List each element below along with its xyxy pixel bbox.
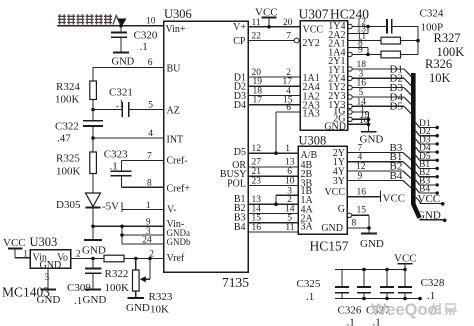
svg-text:U308: U308 [299, 134, 327, 148]
wire GNDa pin 3 [122, 234, 164, 236]
IC U306 7135 A/D converter [164, 7, 250, 290]
svg-text:AZ: AZ [167, 106, 180, 117]
svg-text:10: 10 [285, 176, 295, 186]
svg-text:C322: C322 [55, 121, 79, 133]
svg-text:20: 20 [283, 18, 293, 28]
wire 1Y2 pin 16 net D3 [348, 79, 412, 96]
node junction Vin-/D305 ground line [91, 225, 95, 229]
inverter bubble 2Y2 [294, 38, 299, 43]
wire VCC pin 16 of U308 [347, 188, 405, 205]
resistor R327 [381, 31, 464, 59]
node junction Vo/C309 [91, 257, 95, 261]
svg-text:5: 5 [148, 100, 153, 110]
wire 1G pin 1 [348, 104, 369, 115]
svg-text:.1: .1 [74, 295, 82, 307]
capacitor C328 [398, 270, 445, 303]
svg-text:23: 23 [252, 176, 262, 186]
svg-text:GND: GND [126, 302, 150, 314]
node junction R322/R323 top [134, 257, 138, 261]
svg-text:C325: C325 [297, 278, 321, 290]
svg-text:1: 1 [23, 249, 28, 259]
wire 2Y pin 7 net B3 [347, 142, 412, 160]
wire branch to 1B pin 3 [276, 186, 298, 204]
node junction wiper tap [148, 257, 152, 261]
svg-text:9: 9 [358, 46, 363, 56]
wire INT pin 4 [93, 137, 164, 139]
capacitor C320 [111, 26, 158, 53]
svg-text:100K: 100K [55, 94, 80, 106]
wire 2G pin 19 [348, 110, 370, 121]
svg-text:100K: 100K [56, 166, 81, 178]
svg-text:11: 11 [285, 223, 294, 233]
ground under U303 [37, 290, 61, 307]
svg-text:R322: R322 [105, 268, 129, 280]
svg-text:6: 6 [148, 58, 153, 68]
svg-text:.47: .47 [57, 133, 71, 145]
capacitor C323 [104, 149, 164, 188]
svg-text:C320: C320 [134, 30, 158, 42]
svg-text:Vin+: Vin+ [166, 24, 186, 35]
node junction R324/C322/AZ [91, 108, 95, 112]
svg-text:VCC: VCC [324, 187, 345, 198]
wire D2 pin 19 to 2A4 pin 17 [248, 85, 300, 87]
node junction G/GND [367, 226, 371, 230]
wire 2A1 pin 11 to R327 [348, 32, 381, 42]
svg-text:U307: U307 [299, 6, 329, 21]
node junction B1/1B [274, 202, 278, 206]
wire D4 pin 17 to 2A3 pin 15 [248, 104, 300, 106]
connector net GND [417, 209, 447, 222]
wire POL pin 23 to 3B pin 10 [248, 185, 298, 187]
node junction VCC tap [267, 25, 271, 29]
svg-text:CP: CP [233, 36, 246, 47]
svg-text:Cref-: Cref- [167, 156, 188, 167]
node junctions bottom rail [362, 297, 366, 301]
connector net B1 [416, 160, 439, 170]
wire U303 pin 3 to ground [47, 268, 49, 290]
svg-text:B4: B4 [390, 170, 403, 182]
node junction 2G [367, 118, 371, 122]
node junction GND pin [367, 123, 371, 127]
diode D305 [56, 193, 101, 240]
arrow into node [118, 19, 127, 27]
svg-text:V+: V+ [233, 22, 246, 33]
svg-text:11: 11 [252, 18, 261, 28]
svg-text:GND: GND [360, 134, 384, 146]
resistor R325 [56, 138, 96, 193]
svg-text:GND: GND [321, 223, 343, 234]
wire 1A4 pin 8 [348, 39, 368, 55]
wire 2Y1 pin 9 to R326 [348, 46, 381, 57]
ground under R323 [126, 298, 150, 314]
svg-text:BU: BU [167, 64, 182, 75]
node junction D5/1A3 [274, 151, 278, 155]
svg-text:GNDb: GNDb [167, 237, 191, 247]
power VCC bottom rail [394, 253, 417, 270]
ground under C320 [112, 53, 135, 68]
svg-text:-5V: -5V [102, 201, 119, 213]
node junction C322/INT/R325 [91, 136, 95, 140]
wire D1 pin 20 to 1A1 pin 2 [248, 76, 300, 78]
svg-text:GND: GND [360, 238, 384, 250]
svg-text:C328: C328 [421, 277, 445, 289]
node junctions top rail [362, 268, 366, 272]
wire B3 pin 15 to 2A pin 5 [248, 222, 298, 224]
svg-text:R327: R327 [434, 31, 461, 45]
svg-text:9: 9 [358, 171, 363, 181]
power VCC for U303 [3, 237, 30, 258]
potentiometer R323 [133, 259, 173, 316]
wire 1Y4 pin 12 to C324 [348, 18, 387, 29]
svg-text:8: 8 [352, 218, 357, 228]
svg-text:R324: R324 [56, 81, 80, 93]
power VCC at U306 V+ [255, 7, 278, 27]
svg-text:.1: .1 [306, 291, 314, 303]
watermark WeeQoo [371, 301, 457, 319]
svg-text:POL: POL [227, 179, 246, 190]
node sensor input label (Chinese pseudo-glyphs) [58, 14, 127, 26]
ground under U307 [360, 132, 384, 146]
wire GNDb pin 24 [122, 243, 164, 245]
wire joining GNDa GNDb to Vin- net [121, 226, 123, 244]
connector net D2 [416, 127, 439, 137]
svg-text:Cref+: Cref+ [167, 183, 191, 194]
capacitor C309 [67, 259, 102, 308]
svg-text:10K: 10K [429, 71, 451, 85]
wire GND pin 10 [348, 112, 369, 132]
svg-text:GND: GND [83, 294, 107, 306]
capacitor C327 [366, 270, 394, 326]
connector net D4 [416, 144, 439, 154]
wire 2Y4 pin 3 net D2 [348, 69, 412, 86]
svg-text:12: 12 [252, 144, 262, 154]
connector net D1 [416, 119, 439, 129]
connector net D5 [416, 152, 439, 162]
svg-text:VCC: VCC [418, 193, 441, 205]
svg-text:12: 12 [356, 162, 366, 172]
svg-text:Vref: Vref [167, 253, 185, 264]
svg-text:.1: .1 [347, 317, 355, 326]
capacitor C326 [338, 270, 372, 326]
connector net B4 [416, 185, 439, 195]
svg-text:3: 3 [287, 186, 292, 196]
svg-text:GND: GND [324, 121, 346, 132]
svg-text:1: 1 [146, 201, 151, 211]
wire sensor input to Vin+ [57, 25, 164, 27]
wire BUSY pin 21 to 2B pin 6 [248, 175, 298, 177]
wire G pin 15 [347, 206, 369, 234]
wire 1Y3 pin 14 net D5 [348, 97, 412, 114]
svg-text:16: 16 [357, 188, 367, 198]
wire 4Y pin 12 net B2 [347, 161, 412, 179]
connector net D3 [416, 135, 439, 145]
svg-text:4: 4 [148, 129, 153, 139]
wire Vin- pin 9 [93, 225, 164, 227]
wire B1 pin 13 to 1A pin 2 [248, 203, 298, 205]
svg-text:B4: B4 [234, 222, 246, 233]
svg-text:10: 10 [146, 17, 156, 27]
op-amp reference U303 MC1403 [2, 235, 71, 300]
svg-text:.1: .1 [110, 161, 118, 173]
svg-text:D5: D5 [234, 147, 246, 158]
svg-text:2: 2 [76, 249, 81, 259]
connector net B2 [416, 168, 439, 178]
svg-text:GND: GND [37, 294, 61, 306]
svg-text:17: 17 [253, 96, 263, 106]
svg-text:U306: U306 [164, 7, 192, 21]
svg-text:C324: C324 [420, 8, 444, 20]
wire B2 pin 14 to 4A pin 14 [248, 213, 298, 215]
svg-text:R323: R323 [149, 291, 173, 303]
ground under U308 [360, 234, 384, 251]
svg-text:1: 1 [285, 144, 290, 154]
svg-text:GND: GND [82, 245, 106, 257]
svg-text:7135: 7135 [222, 275, 249, 290]
IC U308 HC157 multiplexer [298, 134, 349, 254]
svg-text:U303: U303 [30, 235, 58, 249]
svg-text:R326: R326 [425, 57, 452, 71]
resistor R322 [104, 255, 129, 294]
wire CP pin 22 to U307 2Y2 pin 7 [248, 40, 294, 42]
svg-text:R325: R325 [56, 153, 80, 165]
svg-text:VCC: VCC [383, 193, 406, 205]
resistor R324 [55, 81, 96, 110]
wire 1Y pin 4 net B1 [347, 151, 412, 169]
wire U303 Vo pin 2 to Vref [71, 258, 164, 260]
ground under C309 [83, 290, 107, 307]
svg-text:VCC: VCC [303, 24, 324, 35]
wire D3 pin 18 to 1A2 pin 4 [248, 95, 300, 97]
svg-text:.1: .1 [116, 98, 124, 110]
svg-text:1A3: 1A3 [303, 109, 320, 120]
node junction 1Y4/2A2 [366, 25, 370, 29]
IC U307 HC240 octal inverting buffer [299, 6, 370, 132]
wire V+ pin 11 to U307 VCC pin 20 [248, 26, 300, 28]
ground under D305 [82, 240, 106, 257]
svg-text:8: 8 [147, 178, 152, 188]
node junction at 121,237 [120, 233, 124, 237]
net label -5V on V- pin 1 [102, 201, 164, 213]
wire 2A2 pin 13 [348, 25, 368, 35]
svg-text:GND: GND [40, 260, 62, 271]
data bus bar [411, 73, 422, 219]
svg-text:D4: D4 [234, 100, 246, 111]
svg-text:7: 7 [286, 31, 291, 41]
svg-text:15: 15 [357, 206, 367, 216]
svg-text:.1: .1 [140, 41, 148, 53]
wire decoupling bottom rail [335, 298, 420, 300]
capacitor C322 [55, 110, 103, 145]
svg-text:C309: C309 [67, 282, 91, 294]
svg-text:VCC: VCC [3, 237, 26, 249]
svg-text:3Y: 3Y [333, 176, 345, 187]
resistor R326 [381, 51, 452, 85]
wire decoupling top rail [335, 269, 405, 271]
wire 1A3 pin 6 from D5 net [276, 103, 300, 153]
svg-text:D305: D305 [56, 199, 81, 211]
svg-text:3A: 3A [301, 222, 314, 233]
wire D5 pin 12 to U308 A/B pin 1 [248, 152, 298, 154]
connector net B3 [416, 176, 439, 186]
svg-text:22: 22 [252, 31, 262, 41]
svg-text:C326: C326 [338, 305, 362, 317]
connector net VCC [416, 193, 445, 206]
svg-text:3: 3 [45, 273, 50, 283]
wire B4 pin 16 to 3A pin 11 [248, 231, 298, 233]
svg-text:C323: C323 [104, 149, 128, 161]
node junction R327/C324/R326 right [416, 39, 420, 43]
svg-text:C321: C321 [109, 87, 133, 99]
wire OR pin 27 to 4B pin 13 [248, 166, 298, 168]
capacitor C321 [93, 87, 164, 118]
svg-text:10K: 10K [150, 304, 169, 316]
svg-text:VCC: VCC [394, 253, 417, 265]
capacitor C324 [387, 8, 444, 55]
wire GND pin 8 [347, 218, 369, 228]
node junction at C320 [119, 24, 123, 28]
svg-text:GND: GND [417, 209, 441, 221]
node junction at 121,227 [120, 225, 124, 229]
svg-text:INT: INT [167, 134, 184, 145]
svg-text:D5: D5 [390, 101, 404, 113]
svg-text:16: 16 [252, 223, 262, 233]
svg-text:6: 6 [286, 103, 291, 113]
svg-text:7: 7 [147, 152, 152, 162]
svg-text:GND: GND [112, 57, 135, 68]
node junction 1A4/2Y1 [366, 53, 370, 57]
wire 2Y3 pin 5 net D4 [348, 88, 412, 105]
svg-text:2Y2: 2Y2 [303, 38, 320, 49]
svg-text:HC157: HC157 [310, 239, 349, 254]
wire 3Y pin 9 net B4 [347, 170, 412, 188]
capacitor C325 [297, 270, 350, 304]
svg-text:24: 24 [142, 236, 152, 246]
wire BU pin 6 [93, 67, 164, 81]
wire 1Y1 pin 18 net D1 [348, 60, 412, 77]
svg-text:G: G [338, 204, 345, 215]
svg-text:V-: V- [167, 204, 177, 215]
svg-text:WeeQoo: WeeQoo [371, 301, 438, 319]
svg-text:100K: 100K [105, 282, 130, 294]
